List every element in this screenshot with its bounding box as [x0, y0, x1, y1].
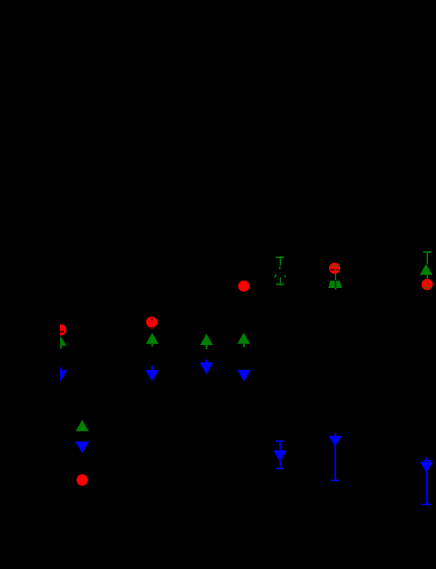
cluster5 blue bottom cap [276, 468, 284, 470]
cluster4 red circle [238, 281, 249, 292]
cluster5 blue top cap [276, 440, 284, 442]
cluster3 green stub [206, 345, 208, 349]
cluster2 red circle [146, 317, 157, 328]
cluster2 green stub [151, 344, 153, 347]
cluster4 green triangle [237, 333, 250, 344]
cluster6 green stub below [335, 288, 337, 290]
cluster5 blue triangle [273, 450, 286, 462]
cluster5 black thin line over tip [279, 265, 282, 269]
cluster2 blue stub above [151, 366, 153, 370]
legend green triangle [76, 420, 89, 431]
cluster5 green lower line [280, 277, 281, 283]
cluster7 green line [427, 253, 428, 264]
cluster4 green stub [243, 344, 245, 348]
cluster5 green top cap [276, 257, 284, 259]
cluster7 red circle [422, 279, 433, 290]
cluster3 blue stub above [206, 360, 208, 363]
cluster7 blue top cap [423, 460, 431, 462]
cluster1 blue stub above [59, 367, 61, 370]
cluster5 blue upper line [279, 442, 281, 451]
cluster7 olive vertical over red [427, 279, 428, 287]
cluster6 green trapezoid marker [328, 281, 342, 288]
cluster7 blue stub above cap [426, 457, 428, 459]
cluster2 dark vertical band over red [151, 317, 153, 322]
cluster7 olive cap over red [423, 287, 431, 289]
cluster5 green triangle [274, 266, 287, 277]
cluster3 blue triangle [200, 362, 213, 374]
cluster7 green triangle [420, 264, 433, 275]
cluster6 blue long line below [334, 444, 336, 480]
cluster6 olive cap over red [331, 265, 339, 267]
cluster2 blue triangle [145, 370, 158, 381]
cluster2 dark cap below red [150, 327, 155, 329]
cluster4 blue triangle [237, 370, 250, 382]
cluster6 green line between circle and trapezoid [335, 274, 336, 281]
cluster1 blue triangle (clipped) [54, 370, 67, 381]
cluster3 green triangle [200, 334, 213, 345]
cluster5 green upper line [280, 258, 281, 267]
cluster6 black line over trapezoid [335, 280, 336, 288]
cluster5 blue lower line [279, 458, 281, 468]
legend blue triangle [75, 442, 89, 454]
cluster2 green triangle [146, 333, 159, 344]
cluster7 green top cap [423, 251, 431, 253]
cluster1 green triangle (clipped) [54, 336, 67, 346]
legend red circle [77, 474, 88, 485]
cluster5 green bottom cap [276, 284, 284, 286]
cluster1 dark cap notch over red [56, 331, 64, 333]
cluster6 blue bottom cap [331, 480, 339, 482]
cluster6 blue stub above [335, 433, 337, 436]
cluster6 red circle [329, 263, 340, 274]
cluster1 green stub [60, 346, 62, 349]
cluster7 green line below triangle [427, 275, 428, 279]
cluster5 black square overlay [276, 269, 284, 278]
cluster7 blue triangle [420, 462, 433, 473]
cluster6 blue triangle [329, 436, 342, 446]
cluster7 blue bottom cap [422, 504, 431, 506]
cluster6 dark red band over red [330, 269, 338, 271]
cluster1 red circle (clipped at left spine) [55, 324, 66, 335]
cluster7 blue long line below [426, 471, 428, 504]
cluster6 olive vertical line over red [335, 266, 336, 273]
